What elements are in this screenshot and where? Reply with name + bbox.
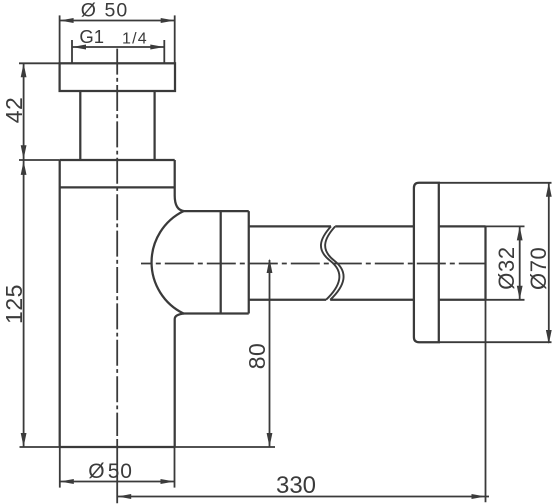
outlet nut right edge: [248, 211, 250, 313]
extension of cup bottom line to right: [175, 446, 275, 448]
extension of cup bottom line to left: [20, 446, 60, 448]
extension line dia32 top: [486, 225, 525, 227]
extension line at flange top toward 42 dim: [19, 62, 60, 64]
svg-text:Ø70: Ø70: [526, 247, 551, 290]
horizontal centerline of pipe: [141, 263, 486, 265]
cup right wall upper segment: [174, 160, 176, 196]
extension line dia32 bottom: [486, 299, 525, 301]
arrow dia70 bottom: [546, 330, 552, 344]
wall face extension line: [485, 300, 487, 503]
svg-text:330: 330: [276, 472, 316, 499]
dimension line dia32: [519, 226, 521, 299]
pipe top wall right of break: [335, 225, 414, 227]
extension line G1 right: [163, 40, 165, 63]
extension line top dia50 right: [174, 15, 176, 63]
outlet branch bottom edge: [184, 312, 249, 314]
arrow dia32 top: [517, 226, 523, 240]
pipe break S-curve right: [325, 226, 343, 299]
extension line dia50 bottom right: [174, 447, 176, 488]
pipe bottom wall left of break: [249, 299, 326, 301]
dimension line 80: [269, 260, 271, 447]
outlet branch top fillet: [175, 196, 184, 212]
extension line dia70 bottom: [439, 341, 552, 343]
dimension line 330: [117, 496, 489, 498]
arrow 42 bottom: [21, 145, 27, 159]
dimension line 42: [23, 63, 25, 160]
extension line G1 left: [71, 40, 73, 63]
wall sleeve right edge: [484, 226, 486, 299]
wall sleeve bottom edge: [439, 299, 486, 301]
svg-text:125: 125: [1, 284, 27, 324]
top flange (inlet flange): [60, 63, 175, 91]
inlet neck right wall: [153, 91, 155, 160]
svg-text:80: 80: [244, 343, 270, 370]
arrow 125 bottom: [21, 433, 27, 447]
svg-text:42: 42: [1, 97, 27, 124]
dimension line dia50 top: [60, 20, 175, 22]
arrow 42 top: [21, 63, 27, 77]
arrow dia32 bottom: [517, 286, 523, 300]
wall flange (escutcheon): [414, 183, 439, 342]
dimension line dia70: [548, 183, 550, 342]
arrow dia50 top left: [60, 18, 74, 23]
arrow dia70 top: [546, 183, 552, 197]
inlet neck left wall: [79, 91, 81, 160]
outlet branch bottom fillet: [175, 314, 184, 320]
centerline extension to 330 dimension: [116, 439, 118, 503]
extension line dia70 top: [439, 182, 552, 184]
extension line top dia50 left: [59, 15, 61, 63]
outlet branch bulge arc: [152, 211, 184, 313]
extension line dia50 bottom left: [59, 447, 61, 488]
pipe bottom wall right of break: [330, 299, 414, 301]
body cover flange bottom edge: [60, 186, 175, 188]
dimension line G1: [72, 46, 164, 48]
dimension line 125: [23, 160, 25, 447]
cup bottom edge: [60, 446, 175, 448]
svg-text:1/4: 1/4: [122, 31, 148, 48]
cup right wall lower segment: [174, 319, 176, 447]
arrow dia50 top right: [161, 18, 175, 23]
arrow 80 bottom: [267, 433, 273, 447]
extension line at body top toward 42/125 dims: [19, 159, 60, 161]
arrow 330 left: [117, 494, 131, 499]
svg-text:Ø32: Ø32: [494, 246, 519, 289]
arrow G1 left: [72, 45, 86, 50]
arrow dia50 bottom right: [161, 479, 175, 484]
cup left wall: [59, 160, 61, 447]
wall sleeve top edge: [439, 225, 486, 227]
pipe break S-curve left: [321, 226, 339, 299]
pipe top wall left of break: [249, 225, 331, 227]
dimension line dia50 bottom: [60, 481, 175, 483]
svg-text:Ø50: Ø50: [88, 460, 133, 483]
svg-text:Ø50: Ø50: [81, 0, 128, 21]
svg-text:G1: G1: [79, 26, 104, 47]
arrow 125 top: [21, 161, 27, 175]
arrow G1 right: [150, 45, 164, 50]
outlet nut left edge: [220, 211, 222, 313]
arrow 80 top: [267, 259, 273, 274]
vertical centerline of trap: [116, 49, 118, 436]
arrow 330 right: [472, 494, 486, 499]
arrow dia50 bottom left: [60, 479, 74, 484]
outlet branch top edge: [184, 210, 249, 212]
body cover flange top edge: [60, 159, 175, 161]
